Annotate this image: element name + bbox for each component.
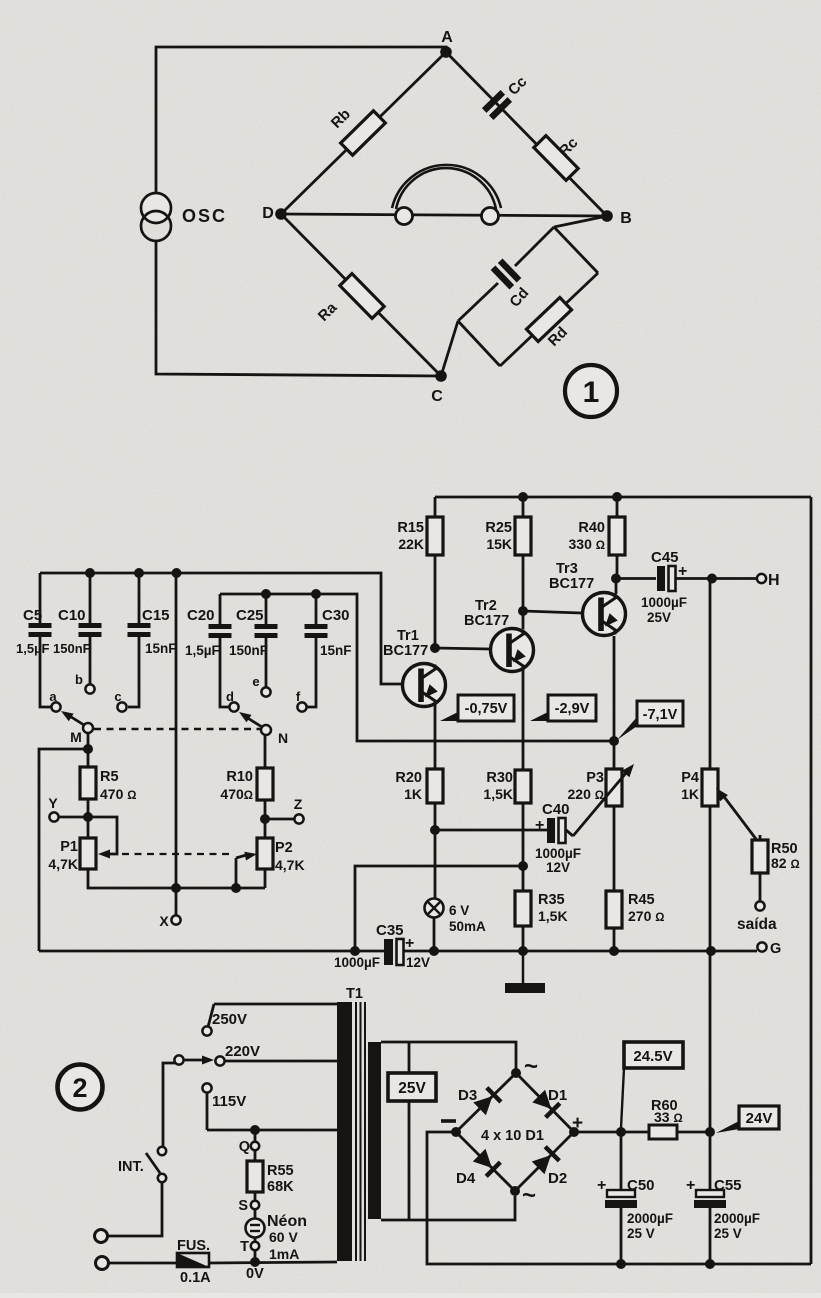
switch M wiper <box>61 711 93 733</box>
wire - lamp to bottom rail <box>433 917 436 951</box>
svg-text:H: H <box>768 572 780 589</box>
svg-text:c: c <box>114 689 121 704</box>
label M <box>70 729 82 745</box>
transistor Tr3 <box>583 593 626 636</box>
wire - switch to phase terminal <box>108 1182 162 1236</box>
label Ra <box>315 299 341 325</box>
transformer T1 <box>337 1002 381 1261</box>
wire - C45 to terminal H <box>676 577 757 580</box>
svg-text:D1: D1 <box>548 1087 567 1104</box>
svg-text:OSC: OSC <box>182 206 227 226</box>
svg-text:Y: Y <box>48 795 58 811</box>
svg-text:Tr2: Tr2 <box>475 598 497 614</box>
wire - P2 bottom to common <box>264 869 267 888</box>
svg-text:C45: C45 <box>651 549 679 566</box>
plus sign C45 <box>678 563 687 580</box>
wire - Y to R5/P1 junction <box>59 816 88 819</box>
svg-text:BC177: BC177 <box>383 643 428 659</box>
transistor Tr1 <box>403 664 446 707</box>
label T1 <box>346 986 363 1002</box>
node - R55 branch <box>250 1125 260 1135</box>
svg-text:2000µF: 2000µF <box>627 1211 673 1226</box>
label R40 <box>578 520 605 536</box>
svg-text:Tr3: Tr3 <box>556 561 578 577</box>
svg-text:25 V: 25 V <box>627 1226 655 1241</box>
label T <box>240 1239 249 1255</box>
label Cd <box>506 284 532 310</box>
value 1K <box>404 786 422 802</box>
node - R5/P1 junction <box>83 812 93 822</box>
label H <box>768 572 780 589</box>
label C25 <box>236 607 264 624</box>
node - bypass link junction <box>350 946 360 956</box>
value 220 ohm <box>568 786 604 802</box>
label e <box>252 674 259 689</box>
svg-text:C10: C10 <box>58 607 86 624</box>
node - R10/Z junction <box>260 814 270 824</box>
value 60V <box>269 1229 298 1245</box>
fuse FUS 0.1A <box>177 1253 209 1267</box>
wire - P1 bottom to common <box>88 869 265 888</box>
node - P2 wiper junction <box>231 883 241 893</box>
svg-text:+: + <box>686 1177 695 1194</box>
label Tr2 <box>475 598 497 614</box>
label C10 <box>58 607 86 624</box>
plus sign C55 <box>686 1177 695 1194</box>
svg-text:P2: P2 <box>275 840 293 856</box>
svg-text:15nF: 15nF <box>320 643 352 658</box>
value 270 ohm <box>628 908 664 924</box>
label B <box>620 210 632 227</box>
P4 wiper arrow <box>716 788 756 839</box>
value 12V <box>406 955 430 970</box>
label BC177 <box>383 643 428 659</box>
label C <box>431 388 443 405</box>
label R55 <box>267 1163 294 1179</box>
wire - negative supply top rail <box>435 496 811 499</box>
contact f <box>297 702 306 711</box>
potentiometer P3 <box>606 769 622 806</box>
wire - plus output <box>574 1131 710 1134</box>
svg-text:50mA: 50mA <box>449 919 486 934</box>
potentiometer P1 <box>80 838 96 869</box>
terminal mains neutral <box>96 1257 109 1270</box>
label R50 <box>771 841 798 857</box>
capacitor C20 <box>209 594 232 707</box>
potentiometer P2 <box>257 838 273 869</box>
wire - capacitor bank top bus to Tr1 base <box>40 573 403 684</box>
capacitor C25 <box>255 594 278 687</box>
mains selector arrow <box>174 1055 214 1064</box>
svg-text:FUS.: FUS. <box>177 1238 210 1254</box>
svg-text:25V: 25V <box>398 1080 426 1097</box>
label C30 <box>322 607 350 624</box>
value 4,7K <box>275 857 305 873</box>
svg-text:M: M <box>70 729 82 745</box>
svg-text:D4: D4 <box>456 1170 476 1187</box>
label Cc <box>505 73 531 99</box>
svg-text:C55: C55 <box>714 1177 742 1194</box>
svg-text:-7,1V: -7,1V <box>643 707 678 723</box>
wire - R45 to bottom rail <box>613 928 616 951</box>
label X <box>159 913 169 929</box>
node - C25 top junction <box>261 589 271 599</box>
capacitor C40 with link <box>435 818 573 843</box>
wire - parallel group to node B <box>554 216 607 227</box>
value 12V <box>546 860 570 875</box>
figure 2 badge <box>58 1065 103 1110</box>
svg-text:0V: 0V <box>246 1266 264 1282</box>
value 82 ohm <box>771 855 800 871</box>
wire - N to R10 <box>264 735 267 768</box>
value 25V <box>714 1226 742 1241</box>
resistor R60 <box>649 1125 677 1139</box>
plus sign C40 <box>535 817 544 834</box>
svg-text:Q: Q <box>239 1139 250 1155</box>
svg-text:T1: T1 <box>346 986 363 1002</box>
svg-text:C50: C50 <box>627 1177 655 1194</box>
wire - fuse to 0V tap <box>209 1262 337 1263</box>
svg-text:-2,9V: -2,9V <box>555 701 590 717</box>
resistor Rd with branch <box>500 273 598 366</box>
label C40 <box>542 801 570 818</box>
label Rb <box>328 106 354 132</box>
svg-text:BC177: BC177 <box>549 576 594 592</box>
wire - plain sides of parallel group <box>458 227 598 366</box>
value 4,7K <box>48 856 78 872</box>
contact c <box>117 702 126 711</box>
switch INT <box>146 1147 166 1182</box>
svg-text:0.1A: 0.1A <box>180 1270 211 1286</box>
wire - secondary top to bridge <box>381 1042 516 1069</box>
diode D4 <box>473 1149 501 1177</box>
svg-text:R45: R45 <box>628 892 655 908</box>
svg-text:X: X <box>159 913 169 929</box>
plus sign C50 <box>597 1177 606 1194</box>
value 33 ohm <box>654 1109 683 1125</box>
value 1,5K <box>483 786 513 802</box>
tap 220V <box>215 1056 337 1065</box>
label 220V <box>225 1043 260 1060</box>
wire - oscillator top lead to node A <box>156 47 446 196</box>
label a <box>49 689 57 704</box>
lamp 6V 50mA <box>425 899 444 918</box>
value 15nF <box>145 641 177 656</box>
svg-text:Néon: Néon <box>267 1213 307 1230</box>
resistor R30 <box>515 770 531 803</box>
wire - bridge arm A to D <box>281 52 446 214</box>
wire - R10 to P2 <box>264 800 267 838</box>
wire - secondary bottom to bridge <box>381 1196 515 1220</box>
wire - bridge diamond <box>456 1073 574 1191</box>
resistor R35 <box>515 891 531 926</box>
tap 250V <box>202 1004 337 1036</box>
label 250V <box>212 1011 247 1028</box>
node D <box>275 208 287 220</box>
diode D3 <box>473 1088 501 1116</box>
node - bridge AC top <box>511 1068 521 1078</box>
capacitor C5 <box>29 573 52 707</box>
wire - selector to switch <box>163 1063 175 1147</box>
label R15 <box>397 520 424 536</box>
wire - bridge arm D to C <box>281 214 441 376</box>
svg-text:12V: 12V <box>546 860 570 875</box>
diode D2 <box>532 1147 560 1175</box>
value 15nF <box>320 643 352 658</box>
node - Tr1 collector / Tr2 base junction <box>430 643 440 653</box>
terminal X <box>171 888 180 925</box>
node - R25 top <box>518 492 528 502</box>
wire - emitter bypass link <box>355 866 523 951</box>
wire - Tr2 collector to Tr3 base <box>523 611 581 629</box>
label P1 <box>60 839 78 855</box>
value 25V <box>647 610 671 625</box>
earpiece terminals and headband <box>392 165 501 225</box>
node C <box>435 370 447 382</box>
label C5 <box>23 607 42 624</box>
label R10 <box>226 769 253 785</box>
switch N wiper <box>239 712 271 735</box>
label OSC <box>182 206 227 226</box>
wire - Tr1 emitter down to R20 <box>434 701 437 770</box>
label Rd <box>545 324 571 350</box>
node - C10 top junction <box>85 568 95 578</box>
value 1mA <box>269 1246 299 1262</box>
label D1 <box>548 1087 567 1104</box>
value 22K <box>398 536 424 552</box>
wire - Tr3 emitter down to P3 <box>613 636 616 769</box>
svg-text:R20: R20 <box>395 770 422 786</box>
wire - right border supply rail <box>810 497 813 1264</box>
label A <box>441 29 453 46</box>
node - lamp junction <box>429 946 439 956</box>
svg-text:150nF: 150nF <box>53 641 91 656</box>
resistor R45 <box>606 891 622 928</box>
label C20 <box>187 607 215 624</box>
wire - R20 to lamp <box>434 803 437 899</box>
svg-text:6 V: 6 V <box>449 903 469 918</box>
label D3 <box>458 1087 477 1104</box>
svg-text:+: + <box>597 1177 606 1194</box>
resistor R10 <box>257 768 273 800</box>
node - centre line junction <box>171 883 181 893</box>
svg-text:INT.: INT. <box>118 1159 144 1175</box>
svg-text:saída: saída <box>737 916 777 933</box>
resistor Ra <box>340 274 384 319</box>
svg-text:Z: Z <box>294 796 303 812</box>
oscillator OSC source symbol <box>141 193 171 241</box>
node - bridge minus <box>451 1127 461 1137</box>
value 150nF <box>229 643 268 658</box>
svg-text:a: a <box>49 689 57 704</box>
svg-text:1000µF: 1000µF <box>641 595 687 610</box>
svg-text:b: b <box>75 672 83 687</box>
value 1,5uF <box>185 643 220 658</box>
capacitor C10 <box>79 573 102 684</box>
node - C50 bottom <box>616 1259 626 1269</box>
svg-text:R5: R5 <box>100 769 119 785</box>
terminal saida <box>755 901 764 910</box>
svg-text:P1: P1 <box>60 839 78 855</box>
node - C55 / 24V junction <box>705 1127 715 1137</box>
resistor R20 <box>427 769 443 803</box>
wire - minus rail <box>427 1132 811 1264</box>
label D <box>262 205 274 222</box>
label BC177 <box>464 613 509 629</box>
wire - P3 to R45 <box>613 806 616 891</box>
contact d <box>229 702 238 711</box>
svg-text:12V: 12V <box>406 955 430 970</box>
svg-text:R55: R55 <box>267 1163 294 1179</box>
svg-text:R35: R35 <box>538 892 565 908</box>
capacitor Cc <box>484 92 510 117</box>
svg-text:15nF: 15nF <box>145 641 177 656</box>
terminal mains phase <box>95 1230 108 1243</box>
transistor Tr2 <box>491 629 534 672</box>
label C45 <box>651 549 679 566</box>
label BC177 <box>549 576 594 592</box>
svg-text:1,5K: 1,5K <box>538 908 568 924</box>
label c <box>114 689 121 704</box>
svg-text:D3: D3 <box>458 1087 477 1104</box>
svg-text:R10: R10 <box>226 769 253 785</box>
capacitor C30 <box>305 594 328 707</box>
contact e <box>261 687 270 696</box>
node A <box>440 46 452 58</box>
P3 wiper arrow <box>573 764 634 836</box>
svg-text:4 x 10 D1: 4 x 10 D1 <box>481 1128 544 1144</box>
capacitor C15 <box>128 573 151 707</box>
svg-text:Tr1: Tr1 <box>397 628 419 644</box>
resistor R5 <box>80 767 96 799</box>
label P4 <box>681 770 699 786</box>
value 2000uF <box>627 1211 673 1226</box>
label 4 x 10 D1 <box>481 1128 544 1144</box>
node - bridge AC bottom <box>510 1186 520 1196</box>
svg-text:25 V: 25 V <box>714 1226 742 1241</box>
wire - P4 column to supply <box>709 951 712 1132</box>
svg-text:+: + <box>535 817 544 834</box>
wire - R35 to bottom rail <box>522 926 525 951</box>
wire - node C to parallel group <box>441 321 458 376</box>
svg-text:220V: 220V <box>225 1043 260 1060</box>
node B <box>601 210 613 222</box>
value 25V <box>627 1226 655 1241</box>
wire - Tr1 collector to Tr2 base <box>435 648 490 649</box>
label R5 <box>100 769 119 785</box>
label Neon <box>267 1213 307 1230</box>
svg-text:BC177: BC177 <box>464 613 509 629</box>
svg-text:R25: R25 <box>485 520 512 536</box>
value 470 ohm <box>100 786 136 802</box>
label S <box>238 1198 248 1214</box>
node - 0V junction <box>250 1257 260 1267</box>
wire - R30 to R35 <box>522 803 525 891</box>
svg-text:R30: R30 <box>486 770 513 786</box>
svg-text:-0,75V: -0,75V <box>465 701 508 717</box>
label N <box>278 730 288 746</box>
label Tr3 <box>556 561 578 577</box>
node - feedback line junction <box>609 736 619 746</box>
svg-text:C20: C20 <box>187 607 215 624</box>
value 1,5K <box>538 908 568 924</box>
label R60 <box>651 1098 678 1114</box>
svg-text:1000µF: 1000µF <box>334 955 380 970</box>
label d <box>226 689 234 704</box>
svg-text:15K: 15K <box>486 536 512 552</box>
node - R30/R35 junction <box>518 861 528 871</box>
svg-text:C15: C15 <box>142 607 170 624</box>
label Tr1 <box>397 628 419 644</box>
label R30 <box>486 770 513 786</box>
node - C55 bottom <box>705 1259 715 1269</box>
label minus <box>441 1119 456 1123</box>
svg-text:D2: D2 <box>548 1170 567 1187</box>
label R25 <box>485 520 512 536</box>
label C55 <box>714 1177 742 1194</box>
svg-text:22K: 22K <box>398 536 424 552</box>
voltage box -0,75V <box>440 695 514 721</box>
neon lamp <box>246 1209 265 1262</box>
value 1K <box>681 786 699 802</box>
figure 1 badge <box>565 365 617 417</box>
wire - M to R5 <box>87 733 90 767</box>
label G <box>770 941 781 957</box>
wire - bottom common rail <box>39 950 757 953</box>
wire - left rail <box>39 749 88 951</box>
potentiometer P4 <box>702 579 718 952</box>
label Q <box>239 1139 250 1155</box>
node - R35 junction <box>518 946 528 956</box>
label C35 <box>376 922 404 939</box>
resistor R15 <box>427 497 443 648</box>
label FUS. <box>177 1238 210 1254</box>
voltage box 25V <box>388 1042 436 1219</box>
svg-text:P4: P4 <box>681 770 699 786</box>
svg-text:N: N <box>278 730 288 746</box>
voltage box -7,1V <box>617 701 683 740</box>
label f <box>296 689 301 704</box>
capacitor C45 <box>657 566 676 591</box>
svg-text:2000µF: 2000µF <box>714 1211 760 1226</box>
node - R40 top <box>612 492 622 502</box>
terminal Y <box>49 812 58 821</box>
svg-text:250V: 250V <box>212 1011 247 1028</box>
resistor Rb <box>341 111 386 155</box>
node - C15 top junction <box>134 568 144 578</box>
label R35 <box>538 892 565 908</box>
resistor R25 <box>515 497 531 611</box>
node - Tr2 collector / Tr3 base junction <box>518 606 528 616</box>
capacitor Cd with branch <box>458 227 554 321</box>
wire - bridge arm A to B <box>446 52 607 216</box>
label P2 <box>275 840 293 856</box>
wire - second capacitor bank bus down to feedback line <box>220 594 612 741</box>
value 1,5uF <box>16 641 50 656</box>
resistor R55 <box>247 1130 263 1209</box>
svg-text:24.5V: 24.5V <box>633 1048 672 1065</box>
svg-text:~: ~ <box>524 1053 538 1080</box>
value 68K <box>267 1179 294 1195</box>
svg-text:1000µF: 1000µF <box>535 846 581 861</box>
svg-text:4,7K: 4,7K <box>48 856 78 872</box>
svg-text:e: e <box>252 674 259 689</box>
svg-text:150nF: 150nF <box>229 643 268 658</box>
svg-text:1K: 1K <box>681 786 699 802</box>
label ~ bottom <box>522 1182 536 1209</box>
node - frequency network centre junction <box>172 568 182 578</box>
wire - Tr2 emitter down to R30 <box>522 665 525 771</box>
